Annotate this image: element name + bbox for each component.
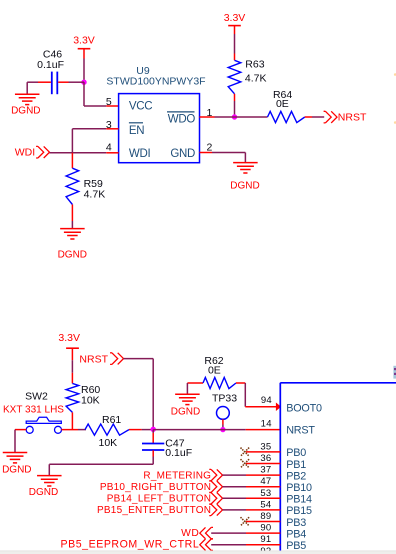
svg-text:KXT 331 LHS: KXT 331 LHS [3, 405, 64, 416]
svg-text:NRST: NRST [286, 424, 315, 436]
svg-text:35: 35 [260, 441, 271, 452]
svg-text:5: 5 [106, 96, 112, 108]
svg-text:VCC: VCC [129, 101, 152, 113]
svg-text:4: 4 [106, 142, 112, 154]
svg-text:0E: 0E [276, 98, 289, 110]
svg-text:89: 89 [260, 511, 271, 522]
svg-text:DGND: DGND [171, 406, 200, 417]
svg-text:NRST: NRST [338, 111, 367, 123]
svg-text:WDO: WDO [168, 114, 196, 126]
svg-text:PB4: PB4 [286, 528, 306, 540]
svg-text:91: 91 [260, 534, 271, 545]
svg-text:0E: 0E [208, 365, 221, 377]
svg-text:DGND: DGND [11, 106, 40, 117]
svg-text:EN: EN [129, 125, 144, 137]
svg-text:3.3V: 3.3V [73, 34, 95, 46]
svg-text:37: 37 [260, 465, 271, 476]
svg-text:PB2: PB2 [286, 470, 306, 482]
svg-text:36: 36 [260, 453, 271, 464]
svg-text:PB3: PB3 [286, 517, 306, 529]
svg-text:PB5_EEPROM_WR_CTRL: PB5_EEPROM_WR_CTRL [60, 539, 199, 551]
svg-text:0.1uF: 0.1uF [37, 59, 64, 71]
svg-text:14: 14 [261, 419, 272, 430]
svg-text:PB14_LEFT_BUTTON: PB14_LEFT_BUTTON [107, 494, 211, 505]
svg-text:DGND: DGND [29, 487, 58, 498]
svg-text:53: 53 [260, 488, 271, 499]
svg-text:TP33: TP33 [212, 393, 237, 405]
svg-text:PB10: PB10 [286, 482, 312, 494]
svg-text:PB15_ENTER_BUTTON: PB15_ENTER_BUTTON [97, 505, 211, 516]
svg-text:90: 90 [260, 523, 271, 534]
svg-text:NRST: NRST [79, 353, 108, 365]
svg-text:WDI: WDI [129, 148, 151, 160]
svg-text:2: 2 [207, 141, 213, 153]
svg-text:PB10_RIGHT_BUTTON: PB10_RIGHT_BUTTON [100, 482, 211, 493]
svg-text:DGND: DGND [2, 465, 31, 476]
svg-text:WDI: WDI [15, 147, 35, 159]
svg-text:DGND: DGND [230, 181, 259, 192]
svg-text:0.1uF: 0.1uF [165, 447, 192, 459]
svg-text:PB0: PB0 [286, 447, 306, 459]
svg-text:PB14: PB14 [286, 494, 312, 506]
svg-text:10K: 10K [99, 437, 118, 449]
svg-text:3.3V: 3.3V [58, 332, 80, 344]
svg-text:GND: GND [170, 148, 195, 160]
svg-text:R_METERING: R_METERING [143, 470, 211, 481]
svg-text:PB1: PB1 [286, 459, 306, 471]
svg-text:BOOT0: BOOT0 [286, 403, 322, 415]
svg-text:3.3V: 3.3V [224, 12, 246, 24]
svg-text:WD: WD [181, 528, 199, 539]
svg-text:10K: 10K [81, 394, 100, 406]
svg-text:4.7K: 4.7K [245, 72, 267, 84]
svg-text:4.7K: 4.7K [84, 188, 106, 200]
svg-text:SW2: SW2 [25, 390, 48, 402]
svg-text:R61: R61 [102, 414, 121, 426]
svg-text:PB5: PB5 [286, 540, 306, 552]
svg-text:R63: R63 [245, 59, 264, 71]
svg-text:DGND: DGND [58, 249, 87, 260]
svg-text:47: 47 [260, 476, 271, 487]
svg-text:PB15: PB15 [286, 505, 312, 517]
svg-text:94: 94 [261, 395, 272, 406]
svg-text:54: 54 [260, 499, 271, 510]
svg-text:STWD100YNPWY3F: STWD100YNPWY3F [106, 76, 205, 88]
